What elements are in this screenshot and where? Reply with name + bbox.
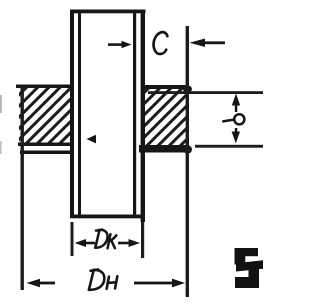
panel top edge right end blob [183,85,192,92]
tube top edge [70,10,146,14]
dimension C label [154,32,168,54]
dimension Dk label [95,230,116,249]
dimension Dk right extension line [141,222,144,258]
dimension Dn label [89,270,117,290]
tube right outer wall [141,11,145,222]
panel hatched section right [145,89,187,146]
tube bottom edge [70,215,142,219]
dimension b line lower with down arrow [235,128,238,138]
dimension Dn line with right arrow [134,282,174,285]
dimension b line upper with up arrow [232,94,240,106]
dimension b label (rotated) [223,120,234,122]
dimension C arrow right [190,39,206,48]
panel bottom edge right thick [139,145,186,153]
tube right inner wall [133,12,136,216]
panel top edge left [16,85,71,89]
panel bottom edge left line 2 [20,151,72,155]
panel top edge right [144,85,187,89]
dimension Dk left extension line [71,222,74,256]
panel bottom edge left line 1 [18,143,72,147]
page number 5 glyph [235,248,264,288]
panel bottom edge right end blob [183,145,192,153]
tube left inner wall [78,12,81,216]
dimension Dk right arrow [118,242,130,245]
panel right edge and C/b/Dн extension line [186,26,189,297]
tube left outer wall [70,11,74,218]
dimension Dk left arrow [75,239,87,247]
dimension b bottom extension line [195,145,263,148]
dimension Dn line with left arrow [27,279,41,288]
panel left edge and Dн extension line [21,86,24,290]
edge smudge marks [0,95,2,113]
dimension b top extension line [148,91,263,94]
wall thickness arrow inside tube [87,135,97,144]
panel hatched section left [19,88,71,144]
dimension C arrow left [108,43,123,46]
